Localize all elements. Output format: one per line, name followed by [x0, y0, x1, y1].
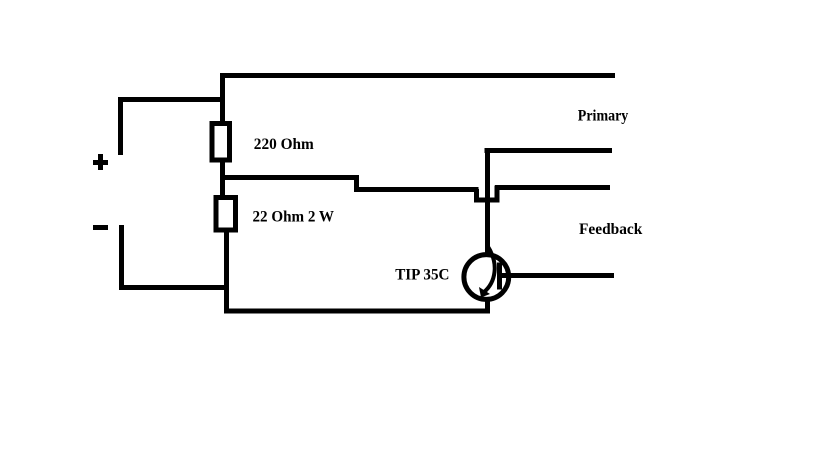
svg-text:220 Ohm: 220 Ohm: [254, 136, 314, 153]
svg-text:TIP 35C: TIP 35C: [395, 267, 449, 284]
svg-text:22 Ohm 2 W: 22 Ohm 2 W: [253, 209, 335, 226]
svg-text:Feedback: Feedback: [579, 221, 643, 238]
svg-text:Primary: Primary: [578, 108, 629, 125]
